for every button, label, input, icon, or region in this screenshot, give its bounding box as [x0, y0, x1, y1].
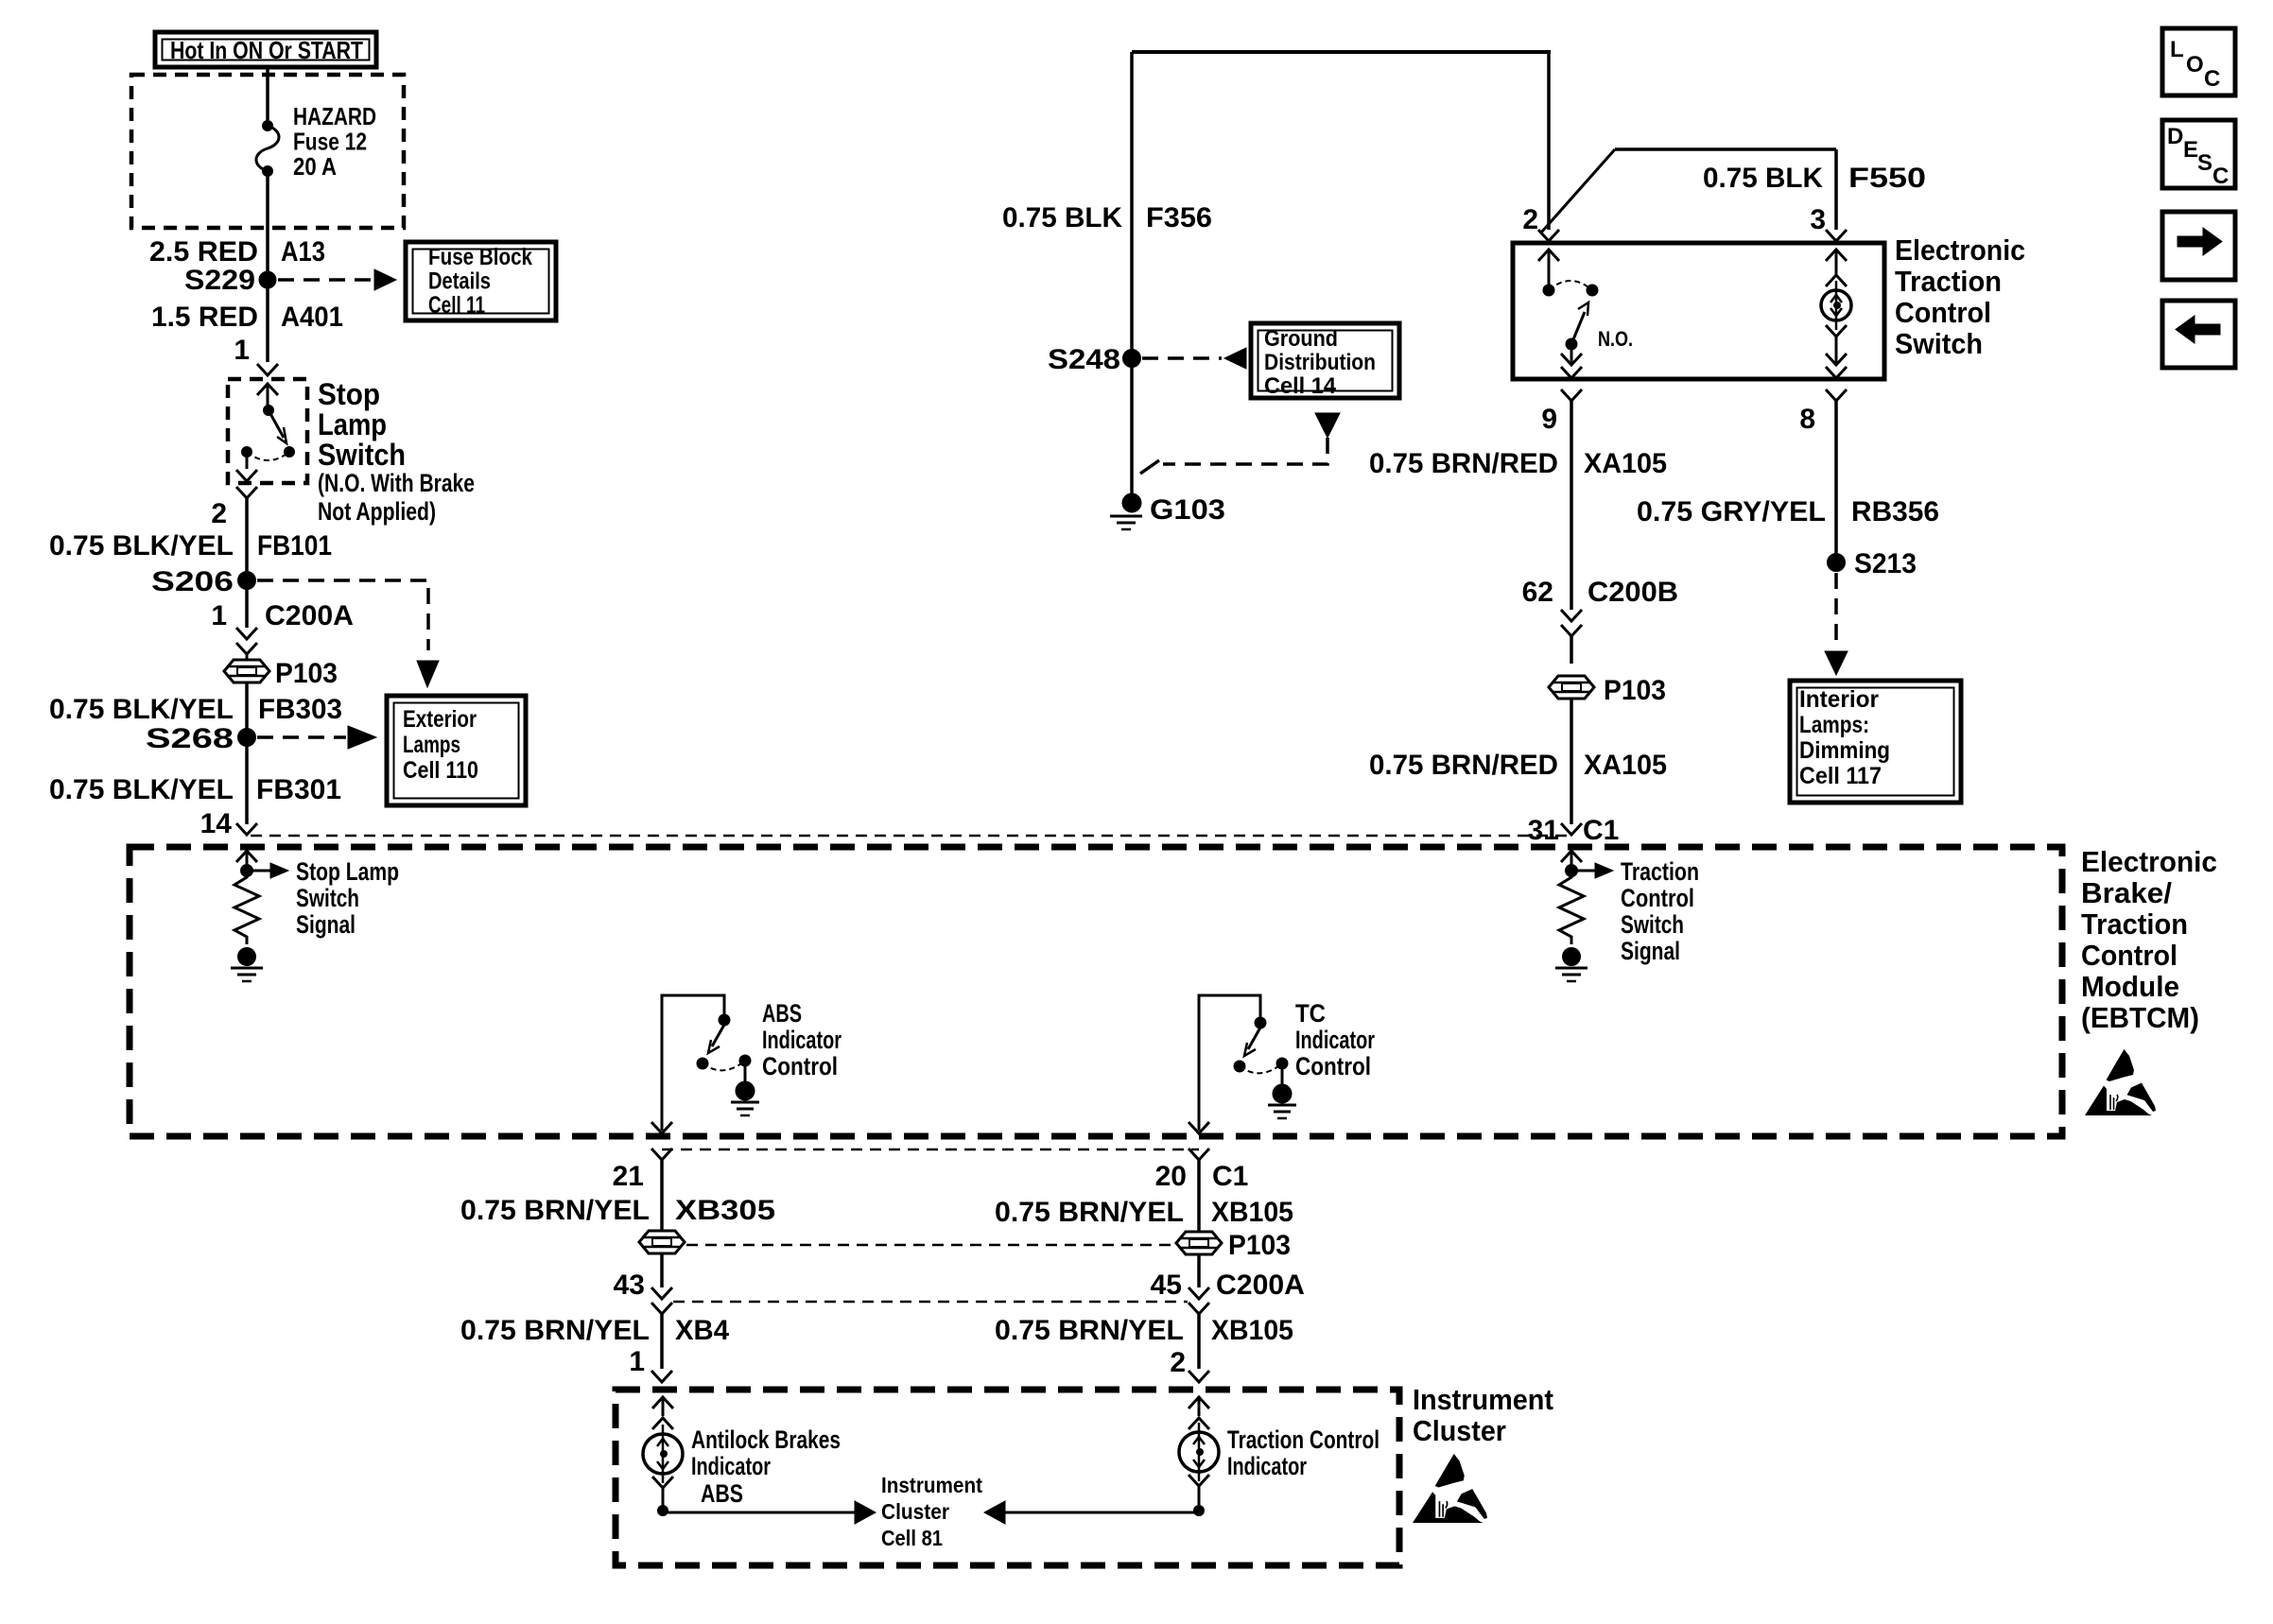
svg-text:Traction Control: Traction Control: [1227, 1425, 1379, 1454]
wire 1.5 RED A401: [151, 288, 343, 362]
stop lamp switch signal input: [231, 851, 288, 981]
svg-text:Indicator: Indicator: [762, 1026, 842, 1054]
pin 20 C1: [1155, 1149, 1249, 1192]
pin 3 label: [1810, 204, 1847, 241]
svg-text:0.75 BRN/YEL: 0.75 BRN/YEL: [460, 1195, 650, 1226]
pin 1 stop lamp switch: [234, 335, 278, 375]
svg-text:Cluster: Cluster: [881, 1499, 949, 1524]
svg-text:XA105: XA105: [1584, 448, 1667, 479]
svg-text:2.5 RED: 2.5 RED: [149, 236, 258, 268]
svg-text:TC: TC: [1295, 999, 1326, 1028]
svg-text:1.5 RED: 1.5 RED: [151, 302, 258, 333]
svg-text:2: 2: [1522, 204, 1538, 235]
traction control indicator lamp: [984, 1397, 1219, 1524]
svg-text:Module: Module: [2081, 970, 2179, 1003]
switch contacts N.O.: [1538, 250, 1633, 378]
svg-text:Control: Control: [1295, 1052, 1371, 1080]
svg-text:Distribution: Distribution: [1264, 350, 1376, 375]
svg-text:Interior: Interior: [1799, 686, 1879, 713]
svg-text:Indicator: Indicator: [1227, 1452, 1307, 1480]
svg-text:0.75 BRN/RED: 0.75 BRN/RED: [1369, 750, 1558, 781]
svg-text:XB105: XB105: [1211, 1197, 1293, 1228]
dashed link Ground Distribution to G103: [1140, 413, 1340, 474]
svg-text:Lamps:: Lamps:: [1799, 712, 1869, 738]
ESD symbol EBTCM: [2085, 1049, 2156, 1115]
svg-text:XB305: XB305: [675, 1195, 775, 1226]
label Traction Control Switch Signal: [1621, 857, 1699, 965]
button DESC: [2162, 120, 2235, 189]
svg-text:Signal: Signal: [1621, 937, 1680, 965]
splice S248: [1048, 344, 1246, 375]
label EBTCM: [2081, 845, 2217, 1034]
svg-text:Indicator: Indicator: [691, 1452, 771, 1480]
wire 0.75 BRN/YEL XB305: [460, 1160, 775, 1231]
TC indicator control switch: [1189, 995, 1296, 1133]
svg-text:62: 62: [1522, 577, 1553, 608]
svg-text:Antilock Brakes: Antilock Brakes: [691, 1425, 841, 1454]
svg-text:0.75 BLK: 0.75 BLK: [1002, 202, 1122, 233]
electronic traction control switch box: [1513, 243, 1884, 379]
svg-text:14: 14: [200, 808, 233, 839]
svg-text:C200A: C200A: [1216, 1270, 1305, 1301]
svg-text:Cluster: Cluster: [1413, 1414, 1506, 1447]
svg-text:2: 2: [211, 498, 227, 529]
pin 2 stop lamp switch: [211, 487, 257, 529]
svg-text:0.75 BLK: 0.75 BLK: [1703, 163, 1823, 194]
svg-text:Traction: Traction: [1621, 857, 1699, 886]
switch lamp: [1821, 250, 1851, 378]
label 0.75 BLK F550: [1703, 163, 1926, 194]
node Hot In ON Or START: [155, 32, 376, 67]
label ABS: [701, 1479, 743, 1508]
node Interior Lamps Dimming Cell 117: [1790, 681, 1961, 803]
wire F356 top run: [1132, 52, 1551, 495]
svg-text:Hot In ON Or START: Hot In ON Or START: [170, 36, 363, 64]
wire F550 jog pins 2-3: [1541, 52, 1836, 233]
pin 1 instrument cluster: [629, 1346, 672, 1382]
label Instrument Cluster Cell 81: [881, 1473, 982, 1550]
svg-text:XA105: XA105: [1584, 750, 1667, 781]
button next arrow: [2162, 212, 2235, 280]
stop lamp switch labels: [318, 377, 475, 526]
fuse HAZARD Fuse 12 20 A: [256, 102, 376, 181]
button LOC: [2162, 28, 2235, 95]
svg-text:S248: S248: [1048, 344, 1120, 375]
svg-text:9: 9: [1541, 404, 1557, 435]
grommet P103 bottom right: [1176, 1230, 1291, 1261]
dashed link P103 to P103: [686, 1244, 1174, 1247]
svg-text:O: O: [2186, 52, 2204, 78]
svg-text:Fuse 12: Fuse 12: [293, 128, 367, 156]
dashed link C200A: [673, 1301, 1188, 1304]
svg-text:Instrument: Instrument: [881, 1473, 982, 1497]
svg-text:Switch: Switch: [296, 884, 359, 912]
svg-text:Indicator: Indicator: [1295, 1026, 1375, 1054]
svg-text:Stop Lamp: Stop Lamp: [296, 857, 399, 886]
wire 0.75 GRY/YEL RB356: [1637, 401, 1939, 554]
fuse block dashed box: [131, 75, 404, 228]
svg-text:HAZARD: HAZARD: [293, 102, 376, 130]
svg-text:Switch: Switch: [1895, 327, 1983, 360]
connector C200B pin 62: [1522, 577, 1678, 636]
pin 31 C1: [1528, 815, 1620, 846]
svg-text:20: 20: [1155, 1161, 1187, 1192]
svg-text:Switch: Switch: [1621, 910, 1684, 939]
svg-text:31: 31: [1528, 815, 1559, 846]
svg-text:C1: C1: [1583, 815, 1619, 846]
svg-text:G103: G103: [1150, 494, 1225, 526]
label Antilock Brakes Indicator: [691, 1425, 841, 1480]
svg-text:L: L: [2170, 37, 2184, 62]
svg-text:Traction: Traction: [2081, 907, 2188, 941]
svg-text:FB301: FB301: [256, 774, 341, 805]
svg-text:Details: Details: [428, 268, 491, 295]
svg-text:RB356: RB356: [1851, 496, 1939, 527]
svg-text:0.75 BLK/YEL: 0.75 BLK/YEL: [49, 530, 234, 561]
svg-text:Exterior: Exterior: [403, 706, 477, 733]
svg-text:C: C: [2204, 66, 2220, 92]
label Traction Control Indicator: [1227, 1425, 1379, 1480]
wire 0.75 BRN/YEL XB105 lower: [995, 1314, 1293, 1369]
svg-text:Cell 117: Cell 117: [1799, 763, 1882, 789]
label Stop Lamp Switch Signal: [296, 857, 399, 939]
svg-text:0.75 BRN/YEL: 0.75 BRN/YEL: [460, 1315, 650, 1346]
svg-text:ABS: ABS: [701, 1479, 743, 1508]
wire 0.75 BRN/YEL XB105 upper: [995, 1160, 1293, 1232]
svg-text:E: E: [2183, 137, 2198, 163]
traction control switch signal input: [1555, 851, 1613, 981]
label 0.75 BLK F356: [1002, 202, 1212, 233]
svg-text:Switch: Switch: [318, 438, 406, 472]
connector C1 line bottom: [662, 1149, 1199, 1151]
svg-text:Control: Control: [762, 1052, 838, 1080]
svg-text:Stop: Stop: [318, 377, 380, 411]
svg-text:F550: F550: [1848, 163, 1926, 194]
ground G103: [1110, 493, 1225, 529]
svg-text:C1: C1: [1212, 1161, 1248, 1192]
stop lamp switch dashed box: [228, 379, 307, 483]
svg-text:0.75 GRY/YEL: 0.75 GRY/YEL: [1637, 496, 1826, 527]
node Ground Distribution Cell 14: [1251, 323, 1399, 399]
wire 0.75 BLK/YEL FB101: [49, 498, 332, 572]
svg-text:F356: F356: [1146, 202, 1212, 233]
svg-text:A401: A401: [281, 302, 343, 333]
svg-text:Brake/: Brake/: [2081, 876, 2172, 909]
svg-text:1: 1: [211, 600, 227, 631]
svg-text:C200B: C200B: [1588, 577, 1678, 608]
svg-text:Control: Control: [1621, 884, 1694, 912]
svg-text:N.O.: N.O.: [1598, 327, 1633, 351]
svg-text:1: 1: [234, 335, 250, 366]
svg-text:ABS: ABS: [762, 999, 802, 1028]
label ABS Indicator Control: [762, 999, 842, 1080]
svg-text:XB105: XB105: [1211, 1315, 1293, 1346]
svg-text:S229: S229: [184, 265, 255, 296]
wire A13 from Hot box to fuse: [266, 67, 269, 126]
svg-text:Cell 14: Cell 14: [1264, 373, 1337, 399]
svg-text:C: C: [2212, 164, 2229, 189]
splice S213: [1825, 548, 1917, 675]
svg-text:Electronic: Electronic: [2081, 845, 2217, 878]
button previous arrow: [2162, 301, 2235, 368]
svg-text:20 A: 20 A: [293, 152, 337, 181]
svg-text:0.75 BLK/YEL: 0.75 BLK/YEL: [49, 694, 234, 725]
splice S229: [184, 265, 396, 296]
svg-text:XB4: XB4: [675, 1315, 729, 1346]
instrument cluster dashed box: [616, 1390, 1399, 1565]
grommet P103 right upper: [1549, 636, 1666, 706]
EBTCM module dashed box: [130, 847, 2062, 1136]
svg-text:3: 3: [1810, 204, 1826, 235]
svg-text:21: 21: [613, 1161, 644, 1192]
svg-text:8: 8: [1799, 404, 1815, 435]
svg-text:Instrument: Instrument: [1413, 1383, 1553, 1416]
splice S268: [146, 723, 376, 754]
svg-text:Fuse Block: Fuse Block: [428, 244, 532, 270]
svg-text:P103: P103: [1604, 675, 1666, 706]
stop lamp switch contacts: [236, 384, 295, 481]
wire 0.75 BRN/RED XA105 upper: [1369, 401, 1667, 610]
svg-text:0.75 BRN/YEL: 0.75 BRN/YEL: [995, 1197, 1184, 1228]
svg-text:45: 45: [1151, 1270, 1182, 1301]
svg-text:S268: S268: [146, 723, 234, 754]
svg-text:(EBTCM): (EBTCM): [2081, 1001, 2199, 1034]
pin 2 label: [1522, 204, 1559, 241]
svg-text:2: 2: [1170, 1347, 1186, 1378]
node Exterior Lamps Cell 110: [387, 696, 526, 805]
label Instrument Cluster: [1413, 1383, 1553, 1447]
svg-text:S: S: [2197, 150, 2212, 176]
svg-text:Not Applied): Not Applied): [318, 497, 436, 526]
svg-text:43: 43: [614, 1270, 645, 1301]
svg-text:Cell 110: Cell 110: [403, 757, 478, 784]
pin 8: [1799, 389, 1847, 435]
svg-text:Dimming: Dimming: [1799, 737, 1890, 764]
wire 2.5 RED A13: [149, 171, 325, 272]
svg-text:FB303: FB303: [258, 694, 342, 725]
svg-text:0.75 BLK/YEL: 0.75 BLK/YEL: [49, 774, 234, 805]
svg-text:C200A: C200A: [265, 600, 354, 631]
pin 2 instrument cluster: [1170, 1347, 1209, 1382]
svg-text:(N.O. With Brake: (N.O. With Brake: [318, 469, 475, 497]
connector C200A pins 43 45: [614, 1253, 672, 1314]
svg-text:D: D: [2167, 124, 2183, 149]
svg-text:Control: Control: [2081, 939, 2178, 972]
svg-text:0.75 BRN/RED: 0.75 BRN/RED: [1369, 448, 1558, 479]
svg-text:Traction: Traction: [1895, 265, 2002, 298]
pin 21: [613, 1149, 672, 1192]
wire 0.75 BRN/RED XA105 lower: [1369, 699, 1667, 824]
svg-text:Signal: Signal: [296, 910, 356, 939]
pin 14 EBTCM: [200, 808, 257, 839]
svg-text:P103: P103: [275, 658, 338, 689]
svg-text:S213: S213: [1854, 548, 1917, 579]
grommet P103 bottom left: [639, 1231, 685, 1253]
node Fuse Block Details Cell 11: [406, 242, 556, 320]
svg-text:Control: Control: [1895, 296, 1991, 329]
svg-text:FB101: FB101: [257, 530, 332, 561]
wire 0.75 BLK/YEL FB301: [49, 746, 341, 824]
connector C1 line top: [251, 835, 1570, 838]
splice S206: [151, 566, 439, 687]
label Electronic Traction Control Switch: [1895, 233, 2025, 360]
svg-text:Lamp: Lamp: [318, 407, 387, 441]
ABS indicator control switch: [651, 995, 759, 1133]
svg-text:Cell 81: Cell 81: [881, 1526, 943, 1550]
svg-text:Lamps: Lamps: [403, 732, 460, 758]
svg-text:Ground: Ground: [1264, 326, 1338, 352]
label TC Indicator Control: [1295, 999, 1375, 1080]
grommet P103 left: [224, 654, 338, 689]
pin 9: [1541, 389, 1582, 435]
wire 0.75 BLK/YEL FB303: [49, 682, 342, 729]
connector C200A pin 1: [211, 589, 354, 654]
svg-text:P103: P103: [1228, 1230, 1291, 1261]
svg-text:1: 1: [629, 1346, 645, 1377]
antilock brakes indicator lamp: [643, 1397, 876, 1524]
svg-text:Cell 11: Cell 11: [428, 292, 485, 319]
ESD symbol instrument cluster: [1413, 1454, 1487, 1523]
svg-text:S206: S206: [151, 566, 234, 597]
svg-text:0.75 BRN/YEL: 0.75 BRN/YEL: [995, 1315, 1184, 1346]
svg-text:Electronic: Electronic: [1895, 233, 2025, 267]
svg-text:A13: A13: [281, 236, 325, 268]
wire 0.75 BRN/YEL XB4: [460, 1314, 729, 1369]
